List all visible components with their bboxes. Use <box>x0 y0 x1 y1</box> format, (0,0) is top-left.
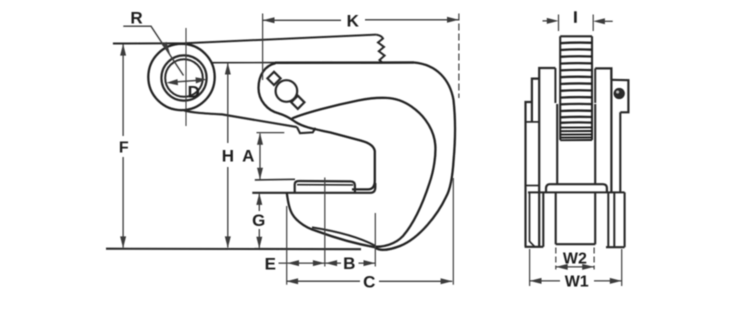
pad bottom line full width <box>528 191 625 193</box>
D diameter arrows <box>170 80 203 82</box>
pad (swivel pad, side view) <box>295 181 355 192</box>
extension line jaw tip (B right) <box>374 213 376 267</box>
W1 dimension <box>530 280 622 282</box>
extension line pad centerline <box>324 178 326 267</box>
ring outer circle <box>161 55 206 100</box>
right lower mid vertical <box>607 193 609 247</box>
svg-text:R: R <box>130 9 142 28</box>
label I <box>574 11 577 22</box>
H dimension line <box>227 64 229 248</box>
pad inner top line <box>297 184 353 186</box>
G dimension line <box>258 194 260 248</box>
I dimension right arrow <box>598 20 613 22</box>
F dimension line <box>122 45 124 248</box>
W2 dimension <box>556 266 594 268</box>
K right extension line <box>458 14 460 99</box>
pad bar (front view) <box>546 184 607 192</box>
central column below pad <box>556 193 596 244</box>
contact line under pad <box>252 183 375 193</box>
eye vertical centerline <box>185 28 187 126</box>
R leader line <box>123 26 183 75</box>
svg-text:D: D <box>188 83 200 102</box>
A bottom reference line <box>255 178 295 181</box>
K dimension line <box>263 19 459 22</box>
svg-text:G: G <box>252 211 265 230</box>
W1 extension lines <box>530 249 622 286</box>
wire: link lower edge from eye <box>184 110 297 127</box>
svg-text:A: A <box>242 147 254 166</box>
C dimension line <box>286 280 452 282</box>
svg-text:B: B <box>343 254 355 273</box>
thread lines <box>560 43 592 123</box>
center bottom line <box>556 243 596 245</box>
left lower chamfer <box>530 193 535 247</box>
frame inner cavity edge <box>292 98 435 247</box>
svg-text:W1: W1 <box>565 274 589 291</box>
svg-text:C: C <box>363 272 375 291</box>
B dimension <box>325 262 375 264</box>
jaw lower outline <box>287 193 375 247</box>
extension line jaw left edge (E/C) <box>286 206 288 285</box>
wire: body top edge <box>211 62 276 64</box>
right lower verticals <box>613 193 615 247</box>
thread dense bottom band <box>560 127 592 140</box>
A dimension line <box>259 134 261 180</box>
screw boss column <box>557 104 595 184</box>
diamond (square key) upper-left of pin <box>267 72 280 85</box>
ring inner circle <box>165 59 203 97</box>
I dimension left arrow <box>543 20 556 22</box>
lever (cam arm) outline <box>259 63 375 189</box>
R leader arrowhead <box>162 42 171 56</box>
pin circle <box>614 89 624 99</box>
svg-text:W2: W2 <box>563 250 587 267</box>
frame outer right edge <box>375 63 455 250</box>
W2 extension lines <box>556 248 594 270</box>
right plate lower edge <box>610 68 612 192</box>
right bottom line <box>606 246 625 248</box>
eye outer circle (clamp eye boss) <box>148 44 214 110</box>
ground reference line <box>106 248 361 251</box>
left front leg <box>526 102 532 247</box>
left pad-level connector <box>526 185 540 187</box>
left side plate <box>539 68 555 247</box>
diamond (square key) lower-right of pin <box>291 96 304 109</box>
left step block <box>532 79 539 122</box>
left bottom line <box>525 246 544 248</box>
wire: screw top edge / F top extension line <box>113 35 376 44</box>
wire: break zigzag on screw shaft <box>376 35 384 63</box>
K left extension line <box>262 14 264 81</box>
svg-text:F: F <box>119 140 129 157</box>
left step bottom connector <box>526 121 540 123</box>
jaw top slope line <box>312 227 375 245</box>
right mid step vertical <box>619 112 621 192</box>
svg-text:K: K <box>347 11 360 30</box>
svg-text:H: H <box>222 147 234 166</box>
extension line C right <box>452 178 454 285</box>
tooth at end of link <box>297 127 316 133</box>
svg-text:E: E <box>265 254 276 273</box>
left lower column edge <box>542 193 544 247</box>
I extension lines <box>559 15 594 32</box>
E dimension <box>279 262 325 264</box>
pin ear block <box>611 80 628 113</box>
A top reference line <box>257 132 285 134</box>
cam pin circle <box>276 80 298 102</box>
right side plate <box>595 68 611 79</box>
threaded rod <box>559 36 561 140</box>
